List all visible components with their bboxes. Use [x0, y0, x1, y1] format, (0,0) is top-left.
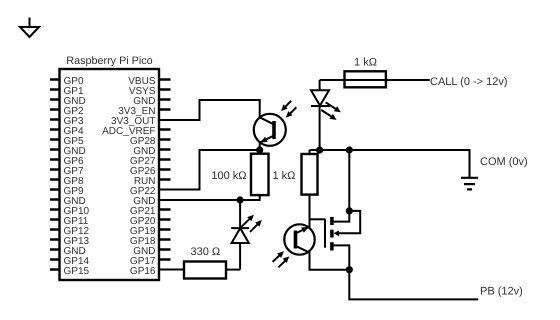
- node B junction dot on GND wire: [237, 196, 244, 203]
- transistor Q3 body arrow: [334, 230, 340, 236]
- resistor R2 1 kOhm (gate): [302, 150, 318, 219]
- light arrows out of LED D2: [241, 215, 262, 232]
- svg-text:CALL (0 -> 12v): CALL (0 -> 12v): [430, 76, 508, 88]
- node C junction dot (LED D1 cathode to COM rail): [316, 146, 323, 153]
- svg-text:GP15: GP15: [64, 266, 90, 277]
- wire MOSFET source to node F: [334, 245, 350, 269]
- svg-text:1 kΩ: 1 kΩ: [354, 56, 377, 68]
- transistor Q3 MOSFET gate bar: [324, 219, 326, 248]
- node A junction dot (Q1 emitter / R1 / GP22): [256, 146, 263, 153]
- wire MOSFET body connection: [339, 211, 360, 233]
- wire gate lead: [310, 218, 326, 220]
- wire GND to bottom of 100k resistor: [159, 195, 260, 201]
- LED D2 (bottom, driven by GP16): [231, 228, 249, 270]
- wire PB terminal: [349, 270, 478, 300]
- phototransistor Q2: [284, 219, 349, 269]
- pin labels left column: [64, 76, 90, 277]
- wire COM rail: [310, 150, 470, 177]
- ground (earth symbol at COM): [461, 178, 478, 190]
- pin stubs left side GP0..GP15: [50, 80, 60, 270]
- wire 3V3_OUT to phototransistor Q1 collector: [159, 100, 260, 120]
- wire MOSFET drain to COM rail: [334, 150, 350, 222]
- resistor R3 330 Ohm: [184, 262, 240, 279]
- ground (logic GND symbol, top-left): [20, 18, 39, 38]
- svg-text:Raspberry Pi Pico: Raspberry Pi Pico: [66, 55, 152, 67]
- node E junction dot (drain/body tie): [346, 207, 353, 214]
- svg-text:PB (12v): PB (12v): [480, 285, 523, 297]
- wire GP16 to 330 ohm resistor: [159, 269, 184, 271]
- svg-text:100 kΩ: 100 kΩ: [211, 170, 246, 182]
- node F junction dot (source / Q2 collector / PB): [346, 266, 353, 273]
- LED D1 (opto input from CALL): [311, 90, 330, 150]
- light arrows into Q2: [273, 251, 290, 267]
- wire node B down to LED D2 cathode: [239, 200, 241, 228]
- transistor Q3 MOSFET channel bars: [330, 217, 334, 251]
- phototransistor Q1: [254, 114, 286, 150]
- svg-text:COM (0v): COM (0v): [480, 156, 528, 168]
- light arrows out of LED D1: [321, 102, 341, 120]
- node D junction dot (COM rail to MOSFET): [346, 146, 353, 153]
- pin stubs right side (unconnected pins): [159, 80, 171, 260]
- light arrows into Q1: [281, 101, 296, 118]
- svg-text:GP16: GP16: [130, 266, 156, 277]
- svg-text:1 kΩ: 1 kΩ: [273, 170, 296, 182]
- pin labels right column: [102, 76, 156, 277]
- resistor R4 1 kOhm (top, CALL input): [320, 71, 430, 90]
- svg-text:330 Ω: 330 Ω: [190, 246, 220, 258]
- op-amp U1 : Raspberry Pi Pico IC body: [60, 69, 160, 280]
- resistor R1 100 kOhm: [251, 150, 269, 195]
- wire GP22 to node A: [159, 150, 260, 190]
